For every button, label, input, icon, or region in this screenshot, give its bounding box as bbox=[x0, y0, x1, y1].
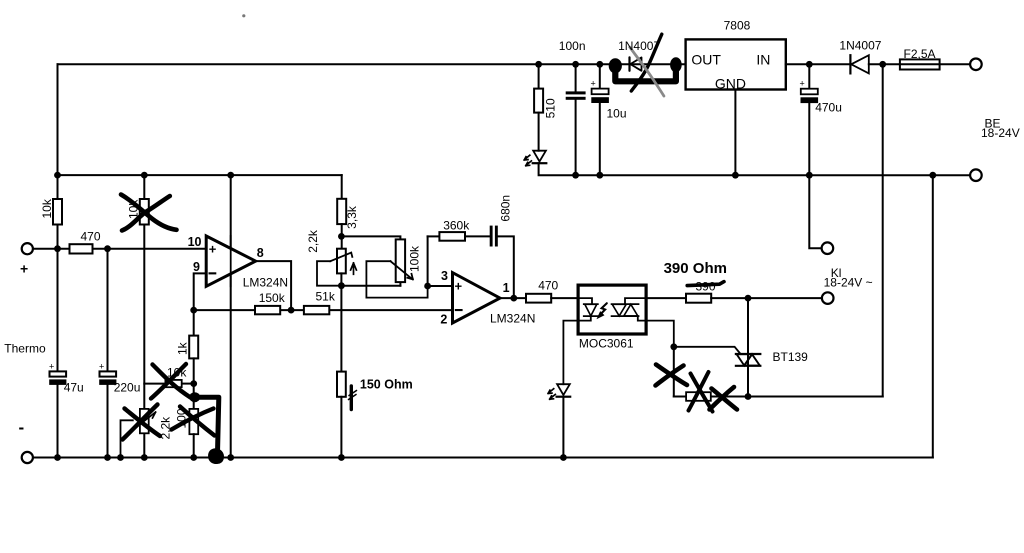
fuse F2,5A bbox=[900, 59, 940, 69]
svg-text:BT139: BT139 bbox=[773, 350, 809, 364]
LED D3 arrows bbox=[548, 389, 554, 394]
node pin9 / 1k / feedback rail bbox=[190, 307, 197, 314]
scribble black stroke over bridge bbox=[631, 34, 662, 91]
node BT139 bottom bbox=[745, 393, 752, 400]
LED D1 arrows bbox=[524, 155, 530, 160]
svg-text:F2,5A: F2,5A bbox=[904, 47, 936, 61]
wire 470 to opamp pin10 bbox=[93, 248, 207, 250]
svg-text:+: + bbox=[800, 79, 805, 89]
scribble over gate resistor body bbox=[691, 374, 713, 412]
LED inside MOC bbox=[584, 303, 598, 305]
svg-text:510: 510 bbox=[544, 98, 558, 118]
wire bottom rail bbox=[33, 457, 933, 459]
photo lightning inside MOC bbox=[600, 303, 607, 315]
svg-text:3: 3 bbox=[441, 269, 448, 283]
resistor 150k body bbox=[255, 306, 280, 314]
svg-text:10u: 10u bbox=[607, 107, 627, 121]
wire MOC triac bottom lead bbox=[638, 316, 674, 347]
svg-text:470u: 470u bbox=[815, 101, 842, 115]
wire x=230 supply vertical over triangle bbox=[230, 236, 232, 286]
resistor 390 body bbox=[686, 294, 711, 303]
node 10u top bbox=[596, 61, 603, 68]
diode D2 1N4007 bbox=[849, 55, 851, 73]
node 2,2k pot bottom bbox=[338, 282, 345, 289]
wire MOC input lead bbox=[578, 298, 592, 304]
scribble X over horizontal 10k bbox=[153, 365, 191, 398]
op-amp U1a LM324N triangle bbox=[206, 236, 255, 286]
resistor R 10k vertical left bbox=[57, 225, 59, 249]
svg-text:100: 100 bbox=[175, 408, 189, 428]
wire 3,3k drop from rail bbox=[341, 175, 343, 199]
thick hand-drawn jumper wire bbox=[195, 397, 219, 453]
wire 510 to LED1 bbox=[538, 113, 540, 151]
node 100n top bbox=[572, 61, 579, 68]
terminal + input bbox=[22, 243, 33, 254]
node 10u bottom bbox=[596, 172, 603, 179]
svg-text:+: + bbox=[20, 261, 28, 277]
terminal Kl lower bbox=[822, 292, 834, 304]
regulator U2 7808 box bbox=[686, 39, 786, 89]
node pin3 / 100k wiper / 360k bbox=[424, 283, 431, 290]
wire 470 to MOC bbox=[551, 297, 578, 299]
wire triac MT1 horizontal bbox=[674, 396, 883, 398]
resistor 10k crossed-out horizontal body bbox=[165, 380, 181, 387]
wire x=230 supply vertical bbox=[230, 175, 232, 457]
wire MOC led cathode lead bbox=[563, 316, 590, 384]
svg-text:150k: 150k bbox=[259, 291, 286, 305]
strike-through over old 390 label bbox=[687, 282, 724, 286]
capacitor 680n plates bbox=[490, 226, 493, 247]
bridge thick U strap bbox=[615, 67, 676, 81]
svg-text:51k: 51k bbox=[316, 289, 336, 303]
svg-text:3,3k: 3,3k bbox=[345, 205, 359, 229]
scribble gray stroke over bridge bbox=[630, 47, 664, 96]
wire left +V rail bbox=[58, 174, 342, 176]
wire main AC vertical x=882.7 bbox=[882, 64, 884, 396]
node left rail / left vertical bbox=[54, 172, 61, 179]
arrow up adjust indicator bbox=[351, 263, 357, 274]
svg-text:47u: 47u bbox=[64, 381, 84, 395]
LED D3 indicator bbox=[557, 384, 570, 395]
svg-text:2: 2 bbox=[440, 313, 447, 327]
svg-text:10k: 10k bbox=[127, 199, 141, 219]
wire 150 Ohm to bottom rail bbox=[340, 397, 342, 458]
node IN / 470u bbox=[806, 61, 813, 68]
wire 680n to output node bbox=[498, 236, 514, 298]
node 7808 GND bbox=[732, 172, 739, 179]
node 390 / BT139 MT2 bbox=[745, 295, 752, 302]
svg-text:220u: 220u bbox=[114, 381, 141, 395]
node left rail x=144 bbox=[141, 172, 148, 179]
capacitor 47u plates bbox=[50, 371, 67, 376]
resistor 510 body bbox=[538, 64, 540, 88]
node right loop top bbox=[929, 172, 936, 179]
node plus/10k/47u bbox=[54, 245, 61, 252]
svg-text:10k: 10k bbox=[167, 366, 187, 380]
capacitor 10u electrolytic bbox=[599, 64, 601, 88]
svg-text:360k: 360k bbox=[443, 219, 470, 233]
wire pot top rail to 100k bbox=[341, 236, 400, 239]
svg-text:470: 470 bbox=[538, 279, 558, 293]
svg-text:1N4007: 1N4007 bbox=[839, 39, 881, 53]
svg-text:1k: 1k bbox=[176, 341, 190, 355]
wire 470u rail branch down to Kl terminal bbox=[809, 175, 821, 248]
resistor 100 crossed-out vertical body bbox=[189, 409, 198, 434]
svg-text:+: + bbox=[455, 279, 463, 294]
wire crossed 10k horizontal left lead bbox=[144, 383, 165, 385]
resistor 10k crossed-out vertical body bbox=[140, 199, 149, 225]
svg-text:2,2k: 2,2k bbox=[306, 229, 320, 253]
scribble X over crossed 2,2k pot bbox=[125, 409, 161, 437]
wire BT139 gate bbox=[674, 347, 741, 354]
wire 7808 GND pin bbox=[734, 90, 736, 176]
jumper blob top bbox=[189, 392, 200, 402]
wire 3,3k to pot node bbox=[341, 224, 343, 249]
wire top rail bbox=[58, 63, 686, 65]
svg-text:2,2k: 2,2k bbox=[159, 416, 173, 440]
capacitor 470u electrolytic bbox=[808, 64, 810, 88]
terminal BE upper bbox=[970, 59, 982, 71]
potentiometer 2,2k crossed-out body bbox=[140, 409, 149, 433]
triac inside MOC bbox=[612, 303, 639, 305]
label minus op2 bbox=[455, 309, 463, 311]
potentiometer 2,2k body bbox=[337, 249, 346, 274]
svg-text:IN: IN bbox=[756, 52, 770, 68]
capacitor 100n bbox=[575, 64, 577, 91]
svg-text:150 Ohm: 150 Ohm bbox=[360, 378, 413, 392]
svg-text:+: + bbox=[99, 362, 104, 372]
svg-text:+: + bbox=[209, 242, 217, 257]
scribble X left of gate resistor bbox=[656, 365, 687, 386]
wire pot bottom rail to 100k bbox=[341, 285, 400, 287]
label minus op1 bbox=[209, 272, 217, 274]
svg-text:390 Ohm: 390 Ohm bbox=[664, 260, 727, 277]
wiper arrow 2,2k bbox=[330, 253, 352, 262]
wire gate node down to crossed resistor bbox=[673, 347, 675, 397]
svg-text:LM324N: LM324N bbox=[490, 312, 535, 326]
wire crossed pot bracket to rail bbox=[121, 420, 133, 457]
wire 2,2k bottom to node bbox=[340, 273, 342, 285]
node top rail 510 bbox=[535, 61, 542, 68]
jumper blob bottom bbox=[209, 449, 223, 463]
wire pin 9 stub bbox=[194, 273, 207, 310]
node crossed 10k right end bbox=[190, 380, 197, 387]
terminal Kl upper bbox=[822, 242, 834, 254]
node op1 output / 150k / 51k bbox=[288, 307, 295, 314]
wire output to 470 bbox=[500, 297, 526, 299]
svg-text:390: 390 bbox=[696, 279, 716, 293]
svg-text:9: 9 bbox=[193, 260, 200, 274]
svg-text:-: - bbox=[19, 418, 25, 437]
bridge blob right bbox=[670, 57, 682, 72]
wire 360k to 680n bbox=[465, 235, 491, 237]
hand mark next to 150 Ohm bbox=[350, 386, 353, 410]
svg-text:GND: GND bbox=[715, 76, 746, 92]
resistor crossed-out gate body bbox=[686, 392, 711, 401]
resistor 1k vertical body bbox=[193, 310, 195, 336]
wire x=144 vertical (crossed branch) bbox=[143, 175, 145, 199]
terminal - input bbox=[22, 452, 33, 463]
wire left vertical from top rail to node A bbox=[57, 64, 59, 199]
svg-text:10: 10 bbox=[188, 235, 202, 249]
wire MOC output to 390 bbox=[646, 297, 686, 299]
scribble X over vertical 10k bbox=[122, 196, 170, 231]
wire 1k bottom to crossed node bbox=[193, 358, 195, 409]
node 2,2k pot top bbox=[338, 233, 345, 240]
svg-text:18-24V: 18-24V bbox=[981, 126, 1020, 140]
LED D1 indicator bbox=[533, 151, 546, 162]
diode crossed-out bridge 1N4007 symbol bbox=[630, 57, 642, 70]
wire x=341 down through feedback rail to 150 Ohm bbox=[340, 286, 342, 372]
wire 220u branch bbox=[107, 249, 109, 372]
svg-text:MOC3061: MOC3061 bbox=[579, 337, 634, 351]
svg-text:1N4007: 1N4007 bbox=[618, 39, 660, 53]
speck top left bbox=[242, 14, 245, 17]
resistor 51k body bbox=[304, 306, 329, 314]
svg-text:8: 8 bbox=[257, 246, 264, 260]
wiper arrow crossed 2,2k bbox=[133, 412, 156, 430]
resistor 150 Ohm body bbox=[337, 372, 346, 397]
scribble X over 100 resistor bbox=[172, 409, 214, 430]
bridge blob left bbox=[609, 58, 622, 73]
wire pin3 bbox=[428, 285, 453, 287]
svg-text:OUT: OUT bbox=[691, 52, 721, 68]
capacitor 220u plates bbox=[100, 371, 117, 376]
svg-text:100k: 100k bbox=[408, 245, 422, 272]
wire right loop vertical x=932.8 bbox=[932, 175, 934, 457]
node gate / crossed resistor bbox=[670, 343, 677, 350]
terminal BE lower bbox=[970, 169, 982, 181]
svg-text:680n: 680n bbox=[499, 195, 513, 222]
resistor 3,3k body bbox=[337, 199, 346, 224]
wire 2,2k wiper bracket bbox=[317, 261, 341, 286]
wire 390 to Kl node bbox=[711, 297, 822, 299]
svg-text:LM324N: LM324N bbox=[243, 276, 288, 290]
node 100n bottom bbox=[572, 172, 579, 179]
wire 100k wiper bracket to pin3 node bbox=[366, 261, 427, 297]
wire feedback rail to op2 pin2 bbox=[194, 309, 453, 311]
wire 100 bottom to rail bbox=[193, 434, 195, 457]
node diode / fuse / triac branch bbox=[879, 61, 886, 68]
wire LED1 to right ground rail bbox=[539, 163, 970, 175]
triac Q1 BT139 bbox=[736, 353, 760, 355]
wire MOC triac top lead bbox=[625, 298, 646, 304]
potentiometer 100k body bbox=[396, 239, 405, 282]
svg-text:7808: 7808 bbox=[724, 19, 751, 33]
resistor 470 input bbox=[70, 244, 93, 253]
resistor 470 (opto drive) body bbox=[526, 294, 551, 303]
svg-text:1: 1 bbox=[503, 281, 510, 295]
svg-text:+: + bbox=[591, 79, 596, 89]
wiper arrow 100k bbox=[391, 261, 413, 279]
op-amp U1b LM324N triangle bbox=[453, 273, 501, 323]
svg-text:Thermo: Thermo bbox=[4, 342, 46, 356]
wire 47u branch bbox=[57, 249, 59, 372]
wire 360k branch up bbox=[427, 236, 429, 286]
scribble X right of gate resistor bbox=[712, 389, 738, 410]
node op2 output bbox=[510, 295, 517, 302]
svg-text:100n: 100n bbox=[559, 39, 586, 53]
node 470u branch bbox=[806, 172, 813, 179]
svg-text:+: + bbox=[49, 362, 54, 372]
wire op1 output drop bbox=[256, 261, 292, 310]
svg-text:10k: 10k bbox=[40, 198, 54, 218]
wire 7808 IN to node bbox=[786, 63, 851, 65]
svg-text:470: 470 bbox=[81, 230, 101, 244]
wire + terminal to 470 bbox=[33, 248, 70, 250]
wire BT139 MT2 drop bbox=[747, 298, 749, 396]
node left rail x=230 bbox=[227, 172, 234, 179]
node 470/220u bbox=[104, 245, 111, 252]
resistor 360k body bbox=[439, 232, 465, 241]
svg-text:18-24V ~: 18-24V ~ bbox=[824, 275, 873, 289]
node bottom rail dots bbox=[54, 454, 61, 461]
optocoupler U3 MOC3061 box bbox=[578, 285, 646, 334]
wire LED3 to bottom rail bbox=[562, 397, 564, 458]
